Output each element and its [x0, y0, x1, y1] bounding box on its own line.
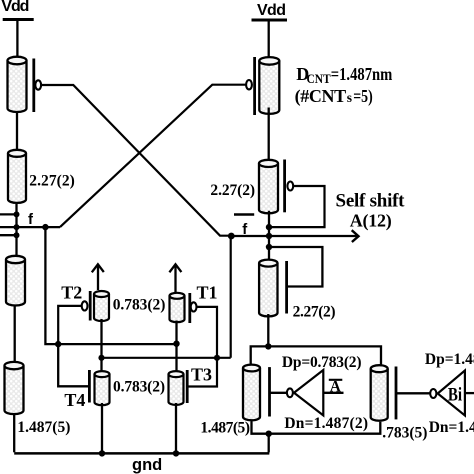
gate bar M3 [253, 57, 256, 115]
svg-text:0.783(2): 0.783(2) [113, 296, 166, 313]
node dot T1/T3 gates [214, 355, 220, 361]
inverter U1 triangle [294, 370, 323, 415]
inverter bottom rail [252, 422, 381, 434]
node dot [14, 232, 20, 238]
node dot C [228, 233, 235, 240]
wire M4 gate loop [269, 186, 325, 227]
label fbar [234, 213, 254, 216]
node dot gnd T4 [99, 450, 105, 456]
node dot wire2 left [98, 355, 104, 361]
transistor M3 right PMOS cylinder [259, 57, 279, 114]
node dot fbar A [266, 224, 272, 230]
wire T3 to gnd [175, 403, 177, 453]
wire INV1 gate to inverter [270, 392, 287, 394]
gate bar M5 [285, 261, 288, 314]
gate bubble M4 [287, 182, 293, 191]
gate bar T1 [188, 293, 191, 323]
gate bubble T1 [191, 302, 197, 311]
wire A to B [14, 305, 16, 362]
node dot inv rail [265, 343, 271, 349]
gate bar M4 [283, 160, 286, 213]
transistor M5 lower right 2.27(2) cylinder [259, 260, 277, 317]
wire stub left 1 [0, 213, 17, 215]
wire M5 gate loop [269, 247, 322, 287]
transistor T3 cylinder [169, 371, 184, 405]
wire cross f to right gate [60, 85, 246, 227]
inverter U2 triangle [438, 371, 465, 416]
Vdd power bar left [3, 18, 34, 21]
svg-text:1.487(5): 1.487(5) [17, 419, 70, 436]
svg-text:T2: T2 [61, 283, 82, 303]
transistor M2 left cylinder 2.27(2) [8, 150, 26, 203]
node dot [14, 224, 20, 230]
node dot fbar B [266, 233, 272, 239]
svg-text:0.783(2): 0.783(2) [113, 378, 165, 395]
gate bubble M3 [246, 80, 252, 89]
wire fbar down right [230, 236, 232, 358]
svg-text:2.27(2): 2.27(2) [210, 182, 255, 199]
node dot wire1 right [173, 341, 179, 347]
wire M1 to M2 [16, 111, 18, 153]
wire2 fbar horizontal [102, 357, 231, 359]
svg-text:1.487(5): 1.487(5) [200, 419, 250, 436]
wire T2 gate [58, 306, 81, 344]
svg-text:A: A [330, 378, 342, 395]
wire U1 output [323, 392, 343, 394]
gate bar T2 [89, 291, 92, 321]
node f rail [15, 204, 17, 258]
left pull-down cylinder A [6, 256, 25, 306]
svg-text:Dp=1.487(2): Dp=1.487(2) [425, 351, 474, 368]
gate bar M1 [32, 59, 35, 113]
Vdd power bar right [252, 19, 288, 22]
svg-text:Dn=1.487(2): Dn=1.487(2) [429, 419, 474, 436]
node fbar rail [268, 211, 270, 262]
arrow T2 up [97, 265, 99, 290]
wire T1-T3 drain chain [175, 321, 177, 375]
node dot [14, 211, 20, 217]
transistor INV2 cylinder .783(5) [371, 365, 388, 421]
wire T4 to gnd [101, 403, 103, 453]
node dot T2/T4 gates [55, 341, 61, 347]
transistor T1 cylinder [170, 293, 185, 322]
gate bubble T2 [82, 301, 88, 310]
wire stub left 3 [0, 234, 17, 236]
wire M5 to inverter rail [267, 314, 269, 346]
wire T4 gate [58, 344, 88, 386]
wire T3 gate [188, 358, 217, 387]
wire B to gnd [13, 413, 15, 452]
node dot gnd T3 [173, 450, 179, 456]
wire M3 to M4 [268, 108, 270, 164]
gate bar INV1 [268, 367, 271, 416]
inverter U1 bubble [287, 388, 293, 397]
svg-text:=1.487nm: =1.487nm [331, 64, 393, 84]
node dot fbar D [266, 244, 272, 250]
svg-text:CNT: CNT [307, 72, 332, 86]
wire U2 output [465, 392, 474, 394]
svg-text:T3: T3 [191, 365, 212, 385]
inverter top rail [251, 346, 381, 367]
svg-text:Dn=1.487(2): Dn=1.487(2) [284, 415, 368, 432]
wire fbar to A(12) arrow [231, 235, 358, 237]
svg-text:Vdd: Vdd [257, 2, 286, 19]
svg-text:Self shift: Self shift [336, 190, 406, 211]
svg-text:Vdd: Vdd [1, 0, 29, 15]
svg-text:Bi: Bi [448, 385, 462, 406]
gate bubble M1 [35, 80, 41, 89]
transistor M1 left PMOS cylinder [8, 57, 27, 112]
gate bar INV2 [395, 367, 398, 420]
svg-text:gnd: gnd [132, 456, 162, 474]
svg-text:T4: T4 [64, 390, 85, 410]
svg-text:2.27(2): 2.27(2) [29, 173, 75, 190]
wire INV2 gate to inverter [396, 392, 430, 394]
transistor T2 cylinder [94, 291, 109, 321]
node dot bottom rail [266, 431, 272, 437]
svg-text:s: s [347, 90, 352, 105]
svg-text:Dp=0.783(2): Dp=0.783(2) [282, 354, 362, 371]
wire T2-T4 drain chain [100, 319, 102, 374]
inverter U2 bubble [430, 389, 436, 398]
left pull-down cylinder B 1.487(5) [5, 362, 24, 414]
wire Vdd to M1 [16, 20, 18, 58]
wire f down [45, 227, 176, 344]
arrow T1 up [174, 265, 176, 292]
svg-text:2.27(2): 2.27(2) [293, 304, 336, 321]
wire M1 gate to cross [41, 85, 231, 236]
transistor M4 right cylinder 2.27(2) [259, 160, 278, 214]
wire T1 gate [197, 307, 218, 358]
transistor T4 cylinder [95, 371, 110, 405]
wire f node [17, 226, 61, 228]
label Abar [329, 379, 343, 381]
wire stub left 2 [0, 226, 17, 228]
svg-text:T1: T1 [197, 283, 218, 303]
node dot f branch [42, 224, 48, 230]
svg-text:(#CNT: (#CNT [295, 86, 347, 107]
svg-text:A(12): A(12) [350, 211, 392, 232]
svg-text:=5): =5) [353, 86, 372, 107]
gate bar T4 [88, 370, 91, 403]
transistor INV1 cylinder 1.487(5) [243, 365, 260, 421]
wire Vdd to M3 [268, 20, 270, 61]
wire gnd leg [268, 434, 271, 453]
svg-text:.783(5): .783(5) [382, 425, 427, 442]
gate bar T3 [186, 370, 189, 403]
gnd rail [14, 452, 269, 455]
